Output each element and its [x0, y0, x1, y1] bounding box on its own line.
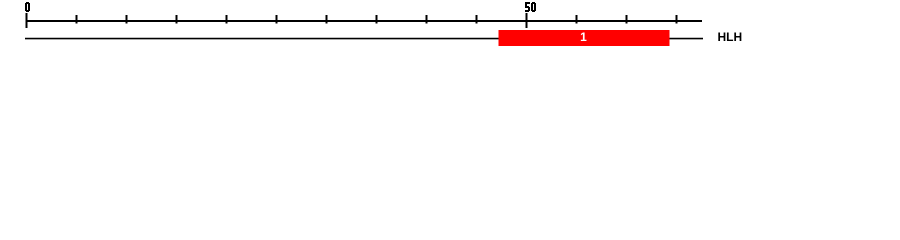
svg-text:1: 1 — [580, 30, 587, 44]
minor tick at 15 — [176, 15, 178, 23]
minor tick at 65 — [676, 15, 678, 23]
minor tick at 25 — [276, 15, 278, 23]
major tick at 0 — [26, 13, 28, 28]
minor tick at 40 — [426, 15, 428, 23]
protein backbone line — [25, 38, 703, 40]
minor tick at 5 — [76, 15, 78, 23]
ruler label 50 — [525, 2, 536, 12]
minor tick at 30 — [326, 15, 328, 23]
minor tick at 45 — [476, 15, 478, 23]
ruler label 0 — [25, 2, 30, 12]
minor tick at 55 — [576, 15, 578, 23]
minor tick at 35 — [376, 15, 378, 23]
major tick at 50 — [526, 13, 528, 28]
minor tick at 60 — [626, 15, 628, 23]
HLH domain box — [499, 30, 670, 46]
minor tick at 10 — [126, 15, 128, 23]
svg-text:HLH: HLH — [718, 30, 743, 44]
minor tick at 20 — [226, 15, 228, 23]
ruler axis line — [26, 20, 703, 22]
